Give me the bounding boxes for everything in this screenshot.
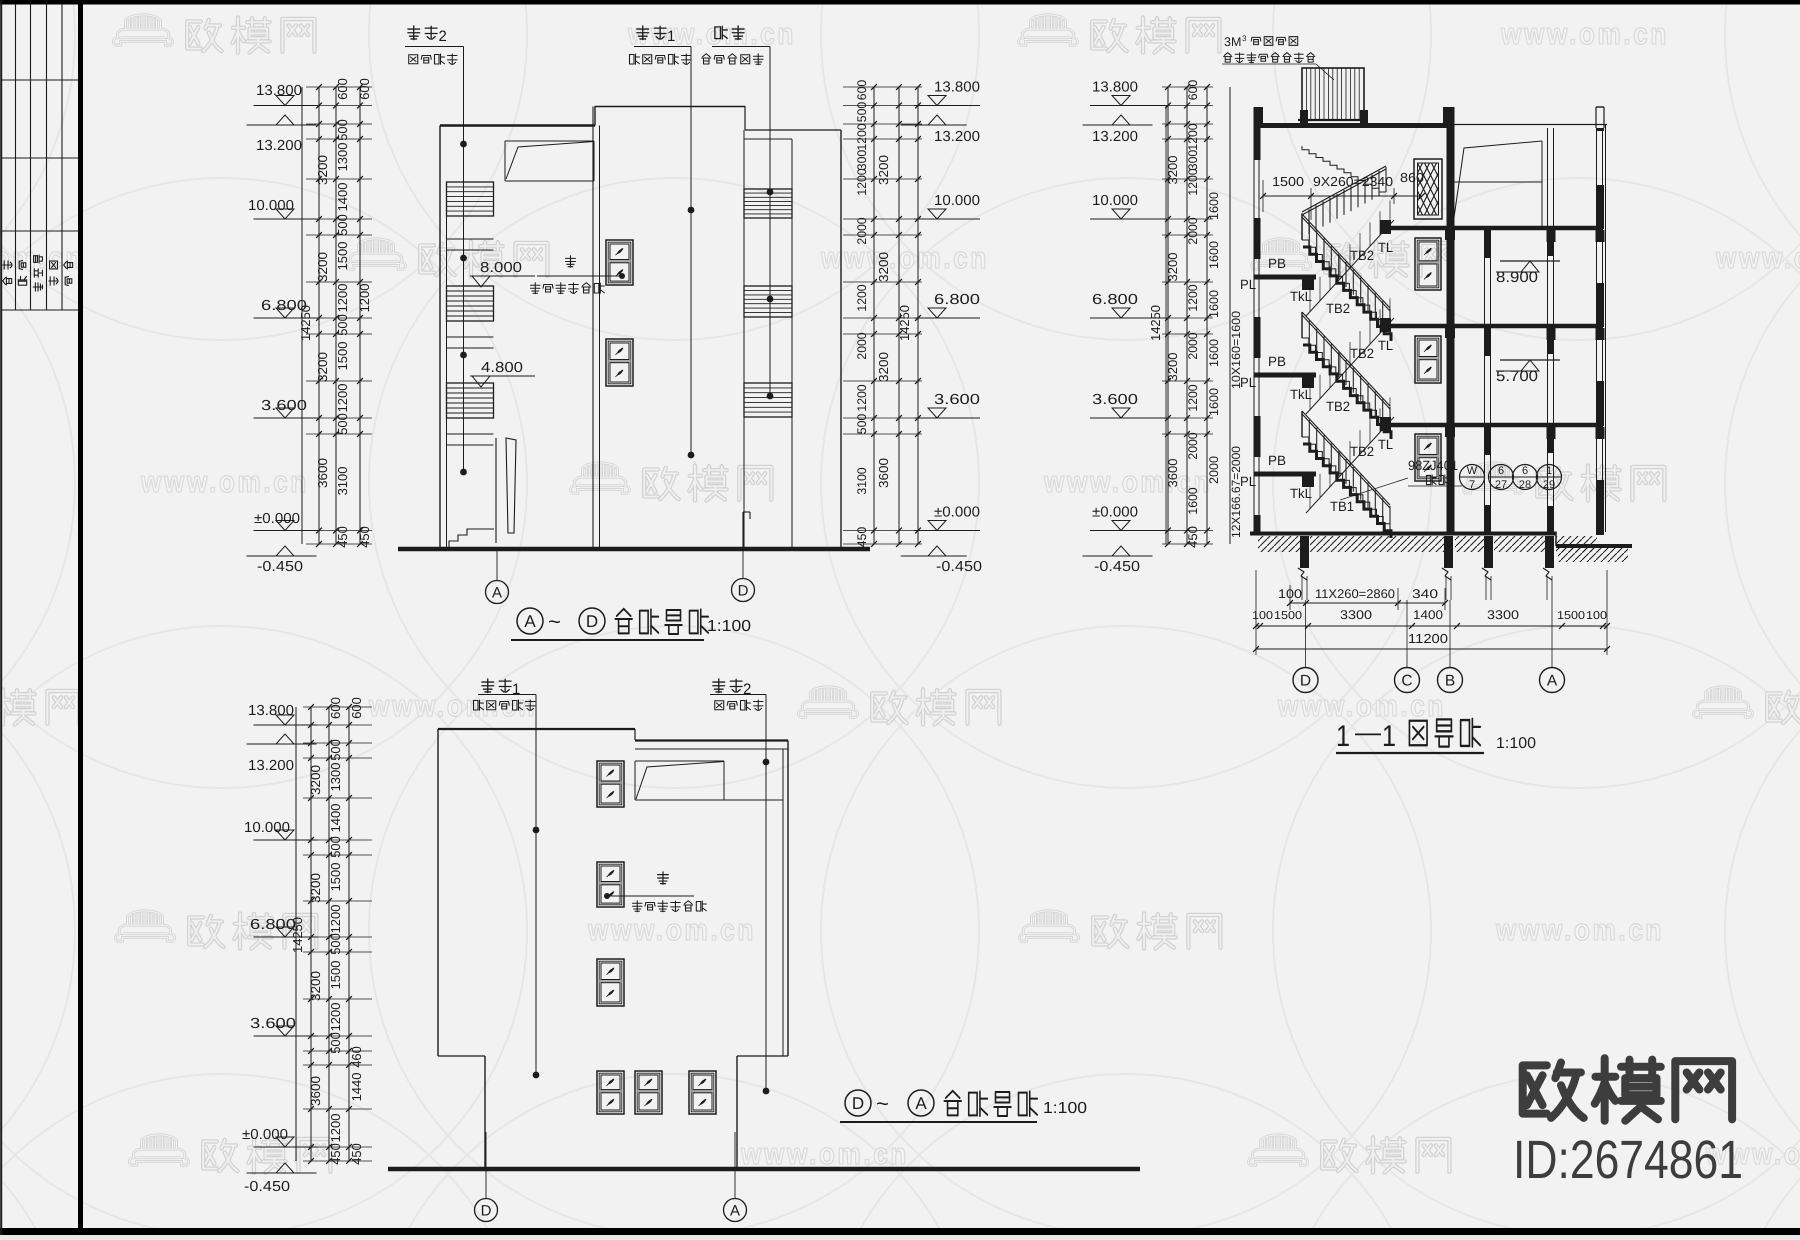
svg-text:500: 500 [335, 214, 350, 236]
lattice window [1414, 159, 1442, 219]
svg-text:-0.450: -0.450 [936, 559, 982, 575]
building outline D-A [437, 729, 439, 1056]
roofline right part [635, 799, 783, 801]
svg-text:1440: 1440 [349, 1073, 364, 1102]
svg-text:1600: 1600 [1207, 241, 1221, 269]
svg-text:3.600: 3.600 [261, 398, 307, 414]
svg-text:600: 600 [349, 697, 364, 719]
svg-text:340: 340 [1412, 587, 1438, 601]
svg-text:-0.450: -0.450 [244, 1179, 290, 1195]
svg-text:3.600: 3.600 [1092, 392, 1138, 408]
leader waiqiang2 [405, 46, 464, 48]
building outline A-D [439, 126, 441, 548]
svg-text:1200: 1200 [328, 905, 343, 934]
ground line D-A [388, 1167, 1140, 1172]
svg-text:1: 1 [1382, 720, 1396, 753]
svg-text:8.000: 8.000 [480, 260, 522, 276]
svg-text:1600: 1600 [1207, 339, 1221, 367]
svg-text:-0.450: -0.450 [257, 559, 303, 575]
svg-text:9X260=2340: 9X260=2340 [1313, 174, 1393, 189]
svg-text:www.om.cn: www.om.cn [1495, 914, 1664, 947]
title strip table [15, 4, 17, 310]
svg-text:-0.450: -0.450 [1094, 559, 1140, 575]
svg-text:A: A [492, 585, 502, 602]
section axis bubbles [1305, 600, 1307, 668]
svg-text:11X260=2860: 11X260=2860 [1315, 587, 1395, 601]
level marks column bottom [254, 724, 318, 726]
level marks left column [254, 105, 318, 107]
svg-text:1200: 1200 [855, 168, 869, 195]
svg-text:13.200: 13.200 [1092, 129, 1138, 145]
middle level column [914, 105, 980, 107]
svg-text:1400: 1400 [1413, 608, 1443, 622]
right wall W6 [1596, 128, 1604, 131]
svg-text:1: 1 [1546, 465, 1552, 477]
svg-text:13.800: 13.800 [256, 83, 302, 99]
svg-text:300: 300 [855, 150, 869, 170]
svg-text:1300: 1300 [328, 763, 343, 792]
left wall W1 [1254, 107, 1261, 160]
svg-text:300: 300 [1186, 150, 1200, 170]
svg-text:3600: 3600 [1166, 458, 1180, 487]
svg-text:8.900: 8.900 [1496, 269, 1538, 286]
svg-text:460: 460 [349, 1046, 364, 1068]
roof slope detail [505, 140, 594, 142]
svg-text:W: W [1467, 465, 1478, 477]
roof parapet left [1254, 107, 1263, 125]
svg-text:500: 500 [328, 933, 343, 955]
stair railing bands right [745, 129, 841, 131]
svg-text:3200: 3200 [876, 155, 891, 185]
svg-text:A: A [915, 1094, 927, 1113]
svg-text:10.000: 10.000 [1092, 193, 1138, 209]
svg-text:1: 1 [512, 681, 520, 698]
svg-text:600: 600 [328, 697, 343, 719]
svg-text:A: A [1547, 673, 1558, 690]
svg-text:3100: 3100 [855, 467, 869, 494]
svg-text:1500: 1500 [1272, 174, 1304, 189]
svg-text:±0.000: ±0.000 [1092, 505, 1138, 521]
svg-text:2000: 2000 [1186, 332, 1200, 359]
svg-text:TB2: TB2 [1350, 444, 1374, 459]
svg-text:www.om.cn: www.om.cn [140, 466, 309, 499]
svg-text:28: 28 [1519, 479, 1531, 491]
svg-text:1600: 1600 [1186, 487, 1200, 514]
svg-text:www.om.cn: www.om.cn [587, 914, 756, 947]
section dim stack [1167, 87, 1169, 544]
svg-text:3600: 3600 [308, 1076, 323, 1106]
svg-text:1200: 1200 [855, 384, 869, 411]
svg-text:1200: 1200 [328, 1114, 343, 1143]
leader langan [712, 46, 770, 48]
roof slope detail bottom [635, 760, 724, 762]
svg-text:—: — [1355, 717, 1381, 747]
svg-text:1500: 1500 [335, 342, 350, 371]
svg-text:www.om.cn: www.om.cn [820, 242, 989, 275]
svg-text:3: 3 [1242, 34, 1247, 43]
svg-text:3200: 3200 [315, 252, 330, 282]
svg-text:600: 600 [357, 78, 372, 100]
svg-text:500: 500 [335, 413, 350, 435]
svg-text:1400: 1400 [328, 804, 343, 833]
svg-text:4.800: 4.800 [481, 360, 523, 376]
svg-text:3200: 3200 [876, 252, 891, 282]
svg-text:11200: 11200 [1408, 631, 1448, 646]
svg-text:2000: 2000 [855, 217, 869, 244]
svg-text:1:100: 1:100 [1043, 1100, 1087, 1117]
axis bubble A [496, 547, 498, 581]
svg-text:6.800: 6.800 [934, 292, 980, 308]
svg-text:1400: 1400 [335, 183, 350, 212]
svg-text:500: 500 [335, 314, 350, 336]
svg-text:±0.000: ±0.000 [254, 511, 300, 527]
svg-text:PB: PB [1268, 354, 1286, 369]
svg-text:450: 450 [349, 1143, 364, 1165]
title A~D [517, 608, 543, 634]
svg-text:www.om.cn: www.om.cn [1715, 242, 1800, 275]
svg-text:6: 6 [1522, 465, 1528, 477]
svg-text:3200: 3200 [876, 352, 891, 382]
svg-text:1:100: 1:100 [707, 618, 751, 635]
svg-text:C: C [1401, 673, 1412, 690]
leader waiqiang1 [634, 46, 691, 48]
svg-text:100: 100 [1586, 610, 1607, 622]
svg-text:1600: 1600 [1207, 192, 1221, 220]
svg-text:TB1: TB1 [1330, 499, 1354, 514]
svg-text:6: 6 [1498, 465, 1504, 477]
svg-text:1200: 1200 [855, 284, 869, 311]
svg-text:3200: 3200 [315, 352, 330, 382]
ground line [398, 547, 870, 552]
svg-text:14250: 14250 [290, 917, 305, 953]
svg-text:3300: 3300 [1487, 608, 1519, 622]
svg-text:98ZJ401: 98ZJ401 [1408, 458, 1458, 473]
svg-text:14250: 14250 [1148, 305, 1163, 341]
dim stack elevation A-D left [301, 87, 303, 544]
svg-text:1200: 1200 [1186, 284, 1200, 311]
stair windows in wall [1415, 238, 1441, 290]
svg-text:1200: 1200 [335, 284, 350, 313]
svg-text:5.700: 5.700 [1496, 368, 1538, 385]
middle dim stack [873, 87, 875, 544]
svg-text:ID:2674861: ID:2674861 [1513, 1130, 1743, 1190]
svg-text:3200: 3200 [1166, 352, 1180, 381]
svg-text:10.000: 10.000 [244, 820, 290, 836]
svg-text:3200: 3200 [315, 155, 330, 185]
svg-text:13.200: 13.200 [934, 129, 980, 145]
stair railing bands left [447, 182, 494, 216]
windows [606, 240, 633, 285]
title D~A [845, 1090, 871, 1116]
svg-text:D: D [586, 612, 598, 631]
svg-text:TB2: TB2 [1350, 346, 1374, 361]
svg-text:7: 7 [1469, 479, 1475, 491]
roof slab [1257, 123, 1454, 128]
svg-text:D: D [738, 583, 749, 600]
floor slabs [1390, 226, 1603, 231]
svg-text:1200: 1200 [335, 384, 350, 413]
svg-text:3200: 3200 [1166, 252, 1180, 281]
svg-text:±0.000: ±0.000 [242, 1127, 288, 1143]
svg-text:860: 860 [1400, 170, 1424, 185]
stair wall beams (PB) [1254, 275, 1317, 280]
foundation piers [1300, 536, 1309, 568]
section level column [1165, 105, 1167, 544]
svg-text:27: 27 [1495, 479, 1507, 491]
svg-text:2000: 2000 [1186, 217, 1200, 244]
svg-text:100: 100 [1252, 610, 1273, 622]
svg-text:1600: 1600 [1207, 290, 1221, 318]
svg-text:TB2: TB2 [1326, 301, 1350, 316]
svg-text:www.om.cn: www.om.cn [740, 1138, 909, 1171]
right parapet [1595, 107, 1597, 128]
svg-text:1200: 1200 [328, 1003, 343, 1032]
wall W5 thin [1547, 128, 1549, 534]
svg-text:3300: 3300 [1340, 608, 1372, 622]
svg-text:2000: 2000 [1186, 432, 1200, 459]
svg-text:3M: 3M [1224, 35, 1241, 49]
svg-text:13.800: 13.800 [248, 703, 294, 719]
dim stack bottom elevation [295, 707, 297, 1161]
svg-text:1200: 1200 [855, 123, 869, 150]
svg-text:600: 600 [335, 78, 350, 100]
svg-text:TkL: TkL [1290, 289, 1312, 304]
water tank [1302, 68, 1364, 120]
svg-text:500: 500 [335, 119, 350, 141]
svg-text:3200: 3200 [308, 765, 323, 795]
svg-text:3200: 3200 [1166, 155, 1180, 184]
sheet frame [0, 0, 1800, 5]
leaders D-A [478, 694, 536, 696]
svg-text:600: 600 [855, 80, 869, 100]
svg-text:450: 450 [335, 526, 350, 548]
svg-text:D: D [852, 1094, 864, 1113]
svg-text:PL: PL [1240, 474, 1256, 489]
svg-text:www.om.cn: www.om.cn [1500, 18, 1669, 51]
svg-text:1500: 1500 [1557, 610, 1585, 622]
svg-text:1500: 1500 [335, 242, 350, 271]
svg-text:1200: 1200 [1186, 384, 1200, 411]
svg-text:3.600: 3.600 [250, 1016, 296, 1032]
svg-text:450: 450 [855, 527, 869, 547]
svg-text:1600: 1600 [1207, 388, 1221, 416]
svg-text:2: 2 [439, 28, 447, 45]
axis bubble D [742, 547, 744, 579]
svg-text:6.800: 6.800 [1092, 292, 1138, 308]
svg-text:PB: PB [1268, 256, 1286, 271]
svg-text:1500: 1500 [328, 863, 343, 892]
svg-text:500: 500 [328, 739, 343, 761]
svg-text:500: 500 [855, 102, 869, 122]
svg-text:PL: PL [1240, 375, 1256, 390]
svg-text:1500: 1500 [328, 961, 343, 990]
svg-text:1: 1 [1336, 720, 1350, 753]
svg-text:500: 500 [328, 836, 343, 858]
svg-text:B: B [1445, 673, 1455, 690]
wall W3 [1447, 107, 1455, 535]
svg-text:13.200: 13.200 [256, 138, 302, 154]
svg-text:±0.000: ±0.000 [934, 505, 980, 521]
svg-text:A: A [524, 612, 536, 631]
svg-text:3600: 3600 [315, 458, 330, 488]
svg-text:~: ~ [548, 609, 561, 634]
svg-text:D: D [1300, 673, 1311, 690]
svg-text:A: A [730, 1203, 740, 1220]
svg-text:TkL: TkL [1290, 387, 1312, 402]
svg-text:500: 500 [855, 414, 869, 434]
svg-text:1: 1 [667, 28, 675, 45]
roof slope detail section [1453, 148, 1455, 221]
big logo 欧模网 [1523, 1063, 1584, 1118]
svg-text:13.200: 13.200 [248, 758, 294, 774]
axis bubbles D-A [485, 1132, 487, 1198]
ground section [1250, 532, 1556, 536]
svg-text:1200: 1200 [357, 284, 372, 313]
stair flights [1302, 240, 1390, 334]
svg-text:450: 450 [357, 526, 372, 548]
svg-text:14250: 14250 [897, 305, 912, 341]
svg-text:TB2: TB2 [1350, 248, 1374, 263]
svg-text:PB: PB [1268, 453, 1286, 468]
windows D-A [597, 761, 624, 807]
svg-text:TkL: TkL [1290, 486, 1312, 501]
svg-text:TL: TL [1378, 338, 1393, 353]
svg-text:1200: 1200 [1186, 168, 1200, 195]
svg-text:2000: 2000 [1207, 456, 1221, 484]
svg-text:TL: TL [1378, 240, 1393, 255]
svg-text:3.600: 3.600 [934, 392, 980, 408]
svg-text:3100: 3100 [335, 467, 350, 496]
svg-text:500: 500 [328, 1032, 343, 1054]
svg-text:10.000: 10.000 [248, 198, 294, 214]
svg-text:13.800: 13.800 [934, 80, 980, 96]
svg-text:29: 29 [1543, 479, 1555, 491]
svg-text:PL: PL [1240, 277, 1256, 292]
svg-text:1500: 1500 [1274, 610, 1302, 622]
svg-text:10.000: 10.000 [934, 193, 980, 209]
svg-text:3200: 3200 [308, 971, 323, 1001]
svg-text:3200: 3200 [308, 873, 323, 903]
entrance column [506, 438, 516, 533]
level marks in rooms [1500, 260, 1560, 262]
svg-text:1300: 1300 [335, 143, 350, 172]
svg-text:TB2: TB2 [1326, 399, 1350, 414]
svg-text:TL: TL [1378, 437, 1393, 452]
wall W4 [1484, 228, 1486, 534]
svg-text:13.800: 13.800 [1092, 80, 1138, 96]
window label bottom [658, 872, 669, 884]
entrance steps [449, 529, 494, 547]
svg-text:14250: 14250 [298, 305, 313, 341]
svg-text:2000: 2000 [855, 332, 869, 359]
svg-text:3600: 3600 [876, 458, 891, 488]
svg-text:450: 450 [328, 1143, 343, 1165]
window label [566, 256, 576, 267]
watermark tiles [114, 15, 173, 45]
svg-text:D: D [481, 1203, 492, 1220]
svg-text:2: 2 [743, 681, 751, 698]
svg-text:450: 450 [1186, 526, 1200, 548]
svg-text:1:100: 1:100 [1496, 735, 1536, 752]
svg-text:600: 600 [1186, 80, 1200, 100]
svg-text:~: ~ [876, 1091, 889, 1116]
svg-text:12X166.67=2000: 12X166.67=2000 [1229, 446, 1243, 538]
detail circles [1460, 465, 1485, 490]
svg-text:1200: 1200 [1186, 123, 1200, 150]
